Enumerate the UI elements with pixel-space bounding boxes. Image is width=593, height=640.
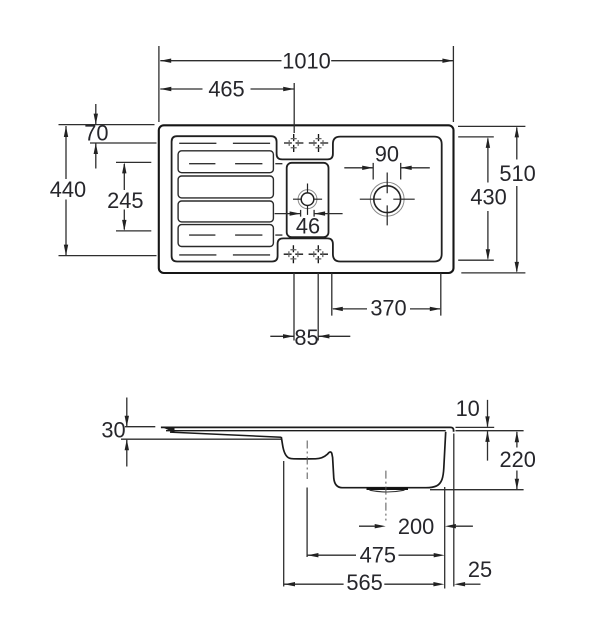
drainboard rib 1 bbox=[178, 151, 273, 173]
svg-text:85: 85 bbox=[294, 325, 318, 350]
475 arrows bbox=[307, 553, 318, 557]
70 arrows (outside) bbox=[94, 114, 98, 125]
1010 arrows bbox=[160, 59, 171, 63]
profile left tip wedge bbox=[161, 427, 175, 433]
big bowl center line (dash-dot) bbox=[385, 471, 387, 521]
dim 370 ticks + line bbox=[332, 273, 441, 316]
svg-text:10: 10 bbox=[456, 396, 480, 421]
510 arrows bbox=[515, 126, 519, 137]
10 arrows bbox=[485, 416, 489, 427]
drain recess thick line bbox=[367, 487, 409, 490]
245 arrows bbox=[122, 162, 126, 173]
dim 25 shaft bbox=[465, 583, 481, 585]
dim 85 ticks + line bbox=[294, 273, 318, 341]
svg-text:370: 370 bbox=[370, 295, 406, 320]
tap hole crosshair top-right bbox=[309, 134, 328, 152]
dim 465 line bbox=[160, 88, 293, 90]
small bowl drain circles bbox=[298, 190, 317, 209]
dim 440 line bbox=[59, 126, 157, 256]
dimension labels (side view) bbox=[101, 396, 536, 595]
440 arrows bbox=[64, 126, 68, 137]
svg-text:440: 440 bbox=[50, 177, 86, 202]
dim 510 ext + line bbox=[458, 126, 525, 273]
475 left ext bbox=[306, 488, 308, 558]
dim 30 ext + shafts bbox=[125, 426, 155, 428]
svg-text:565: 565 bbox=[346, 570, 382, 595]
svg-text:25: 25 bbox=[468, 557, 492, 582]
dim 475 line bbox=[307, 554, 434, 556]
svg-text:430: 430 bbox=[470, 185, 506, 210]
drain fitting below bbox=[370, 490, 405, 492]
tap hole crosshair bottom-right bbox=[309, 245, 328, 263]
long vertical ext B (rim right tip) bbox=[453, 434, 455, 587]
220 arrows bbox=[515, 431, 519, 442]
430 arrows bbox=[486, 137, 490, 148]
370 arrows bbox=[332, 307, 343, 311]
long vertical ext A (bowl right corner) bbox=[444, 487, 446, 589]
dimension labels (top view) bbox=[50, 48, 536, 350]
drainboard dashed water lines bbox=[179, 143, 282, 255]
dim 565 line bbox=[284, 583, 434, 585]
dim 10 shafts bbox=[487, 400, 489, 461]
tap hole crosshair top-left bbox=[284, 134, 303, 152]
svg-text:465: 465 bbox=[208, 76, 244, 101]
profile second (back edge) line bbox=[166, 430, 446, 432]
svg-text:475: 475 bbox=[360, 543, 396, 568]
drainboard rib 3 bbox=[178, 201, 273, 222]
right ext lines bbox=[456, 427, 524, 430]
side view arrows bbox=[125, 416, 519, 587]
dim 90 line + ticks bbox=[344, 167, 430, 169]
big drain center mark rays bbox=[360, 173, 415, 226]
tap hole crosshair bottom-left bbox=[284, 245, 303, 263]
small drain center mark rays bbox=[293, 184, 322, 215]
underside line (also 30 ext) bbox=[121, 438, 282, 440]
dim 70 ext lines + shafts bbox=[59, 125, 157, 143]
dimension arrows (top view) bbox=[64, 59, 519, 339]
drainboard rib 2 bbox=[178, 176, 273, 198]
recess outline loop: drainboard + tap ledges + right bowl bbox=[172, 136, 442, 261]
dim 430 ext + line bbox=[458, 137, 494, 260]
svg-text:30: 30 bbox=[101, 417, 125, 442]
profile top surface line bbox=[161, 427, 454, 431]
big bowl drain circles bbox=[370, 182, 404, 216]
25 arrow (outside) bbox=[454, 582, 465, 586]
85 arrows (outside) bbox=[283, 334, 294, 338]
200 arrows (outside) bbox=[375, 524, 386, 528]
565 left ext bbox=[283, 461, 285, 587]
small bowl + divider + big bowl profile bbox=[281, 432, 445, 488]
46 arrows (outside) bbox=[290, 211, 301, 215]
svg-text:90: 90 bbox=[375, 142, 399, 167]
sink rim outer rectangle bbox=[159, 125, 454, 273]
small bowl center line (dash-dot) bbox=[306, 441, 308, 480]
svg-text:1010: 1010 bbox=[282, 48, 331, 73]
drainboard rib 4 bbox=[178, 225, 273, 247]
svg-text:220: 220 bbox=[500, 447, 536, 472]
svg-text:510: 510 bbox=[499, 161, 535, 186]
drainboard slope line bbox=[170, 432, 281, 437]
svg-text:245: 245 bbox=[107, 188, 143, 213]
svg-text:200: 200 bbox=[398, 514, 434, 539]
465 arrows bbox=[160, 87, 171, 91]
dim 220 line bbox=[516, 432, 518, 489]
90 arrows (outside) bbox=[362, 166, 373, 170]
30 arrows bbox=[125, 416, 129, 427]
dim 200 shafts bbox=[359, 525, 473, 527]
small middle bowl bbox=[287, 163, 329, 237]
565 arrows bbox=[284, 582, 295, 586]
dim 1010 lines bbox=[159, 46, 454, 122]
svg-text:70: 70 bbox=[84, 120, 108, 145]
svg-text:46: 46 bbox=[296, 214, 320, 239]
dim 46 line + ticks bbox=[275, 213, 343, 215]
dim 245 line + ext bbox=[116, 162, 151, 231]
